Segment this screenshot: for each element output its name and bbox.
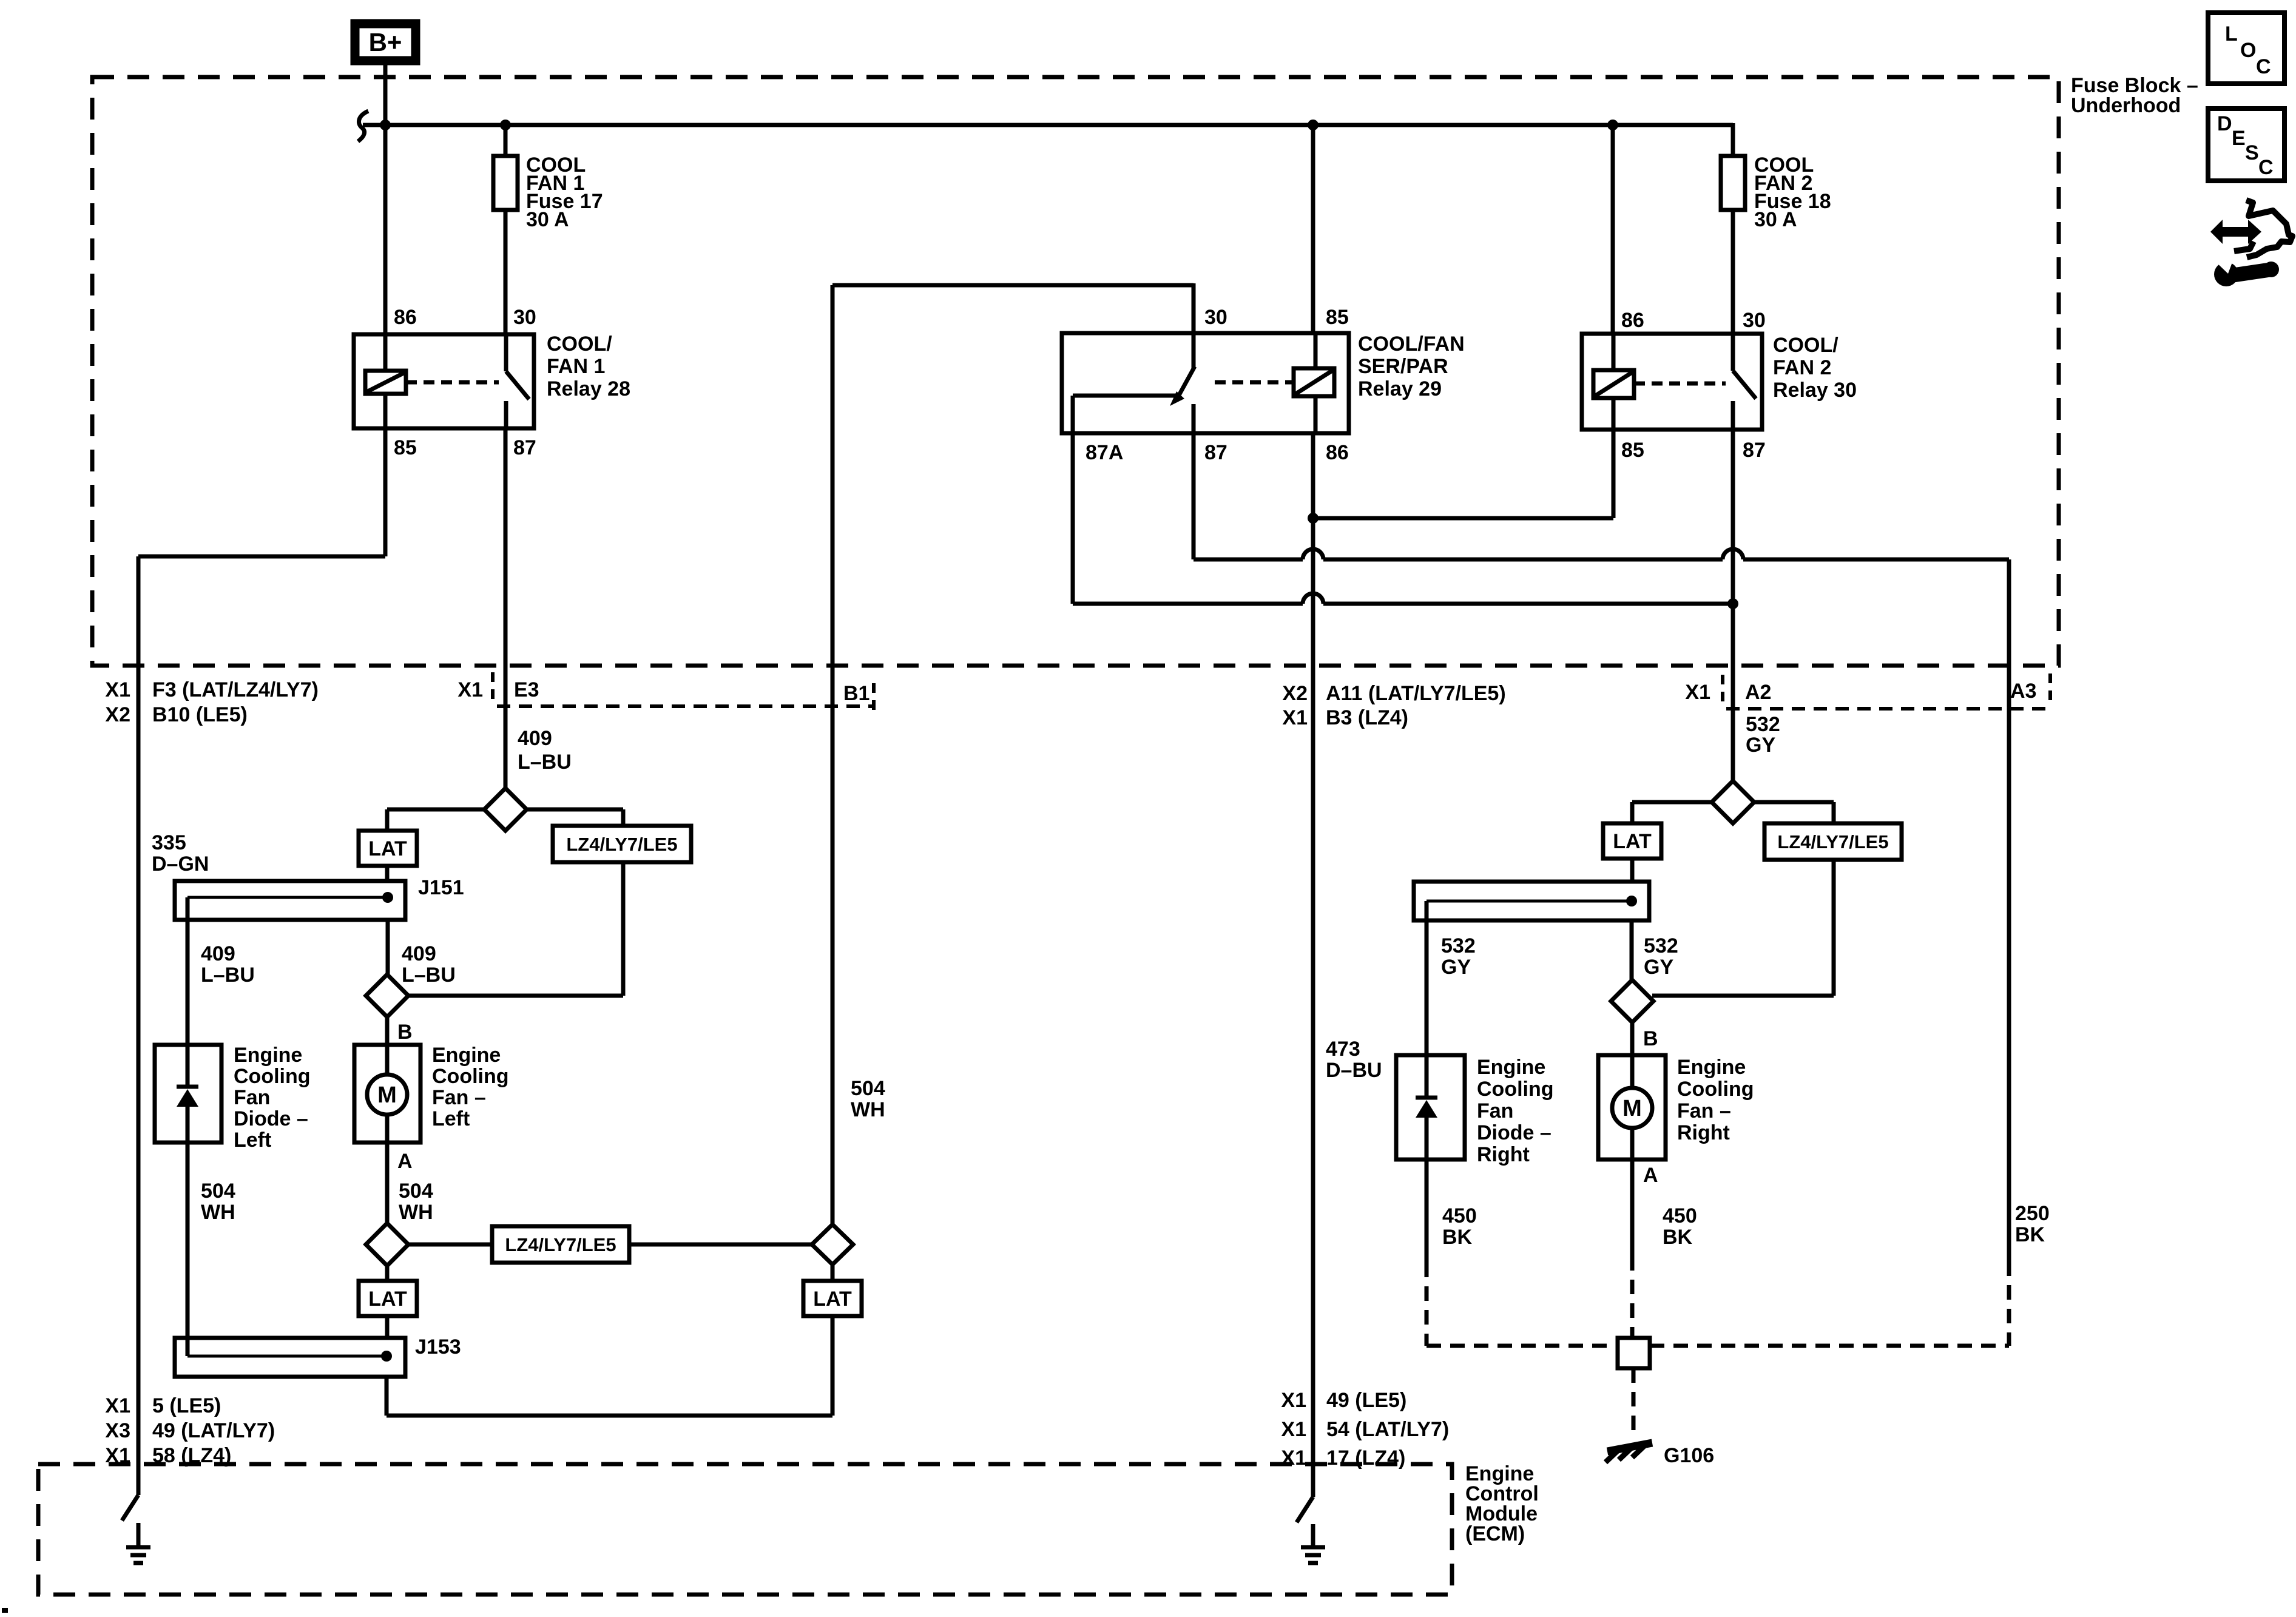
svg-text:COOL/: COOL/ [1773,334,1838,357]
label J151 [418,876,464,899]
artifact mark bottom-left [2,1608,8,1613]
svg-text:Engine: Engine [1477,1056,1545,1079]
label wire 532 GY (A2) [1746,713,1780,757]
svg-text:86: 86 [1621,309,1644,332]
relay K28 terminal 85 label [394,436,417,459]
svg-text:B: B [1643,1027,1658,1050]
svg-text:LAT: LAT [1613,830,1652,853]
label wire 504 WH (diode left) [201,1180,235,1224]
wire D6 to motor right [1630,1021,1635,1055]
ECM pin labels X1 49 / X1 54 / X1 17 [1281,1389,1449,1470]
wire motor right A to ground (450 BK) [1630,1160,1635,1338]
wire relay29-86 junction to relay30-85 [1308,430,1613,524]
svg-text:LZ4/LY7/LE5: LZ4/LY7/LE5 [1777,831,1888,852]
svg-text:409: 409 [402,942,436,965]
label wire 450 BK (diode right) [1442,1204,1477,1249]
svg-text:30: 30 [1743,309,1766,332]
connector pin X1 F3 / X2 B10 labels [105,678,319,726]
svg-text:87: 87 [513,436,536,459]
wire diode right to ground (450 BK) [1427,1160,1618,1346]
splice pack J153 [175,1338,405,1377]
svg-text:LZ4/LY7/LE5: LZ4/LY7/LE5 [505,1234,616,1255]
splice diamond D4 [812,1224,853,1264]
svg-text:87A: 87A [1086,441,1123,464]
wire B+ vertical feed [383,65,388,334]
relay K30 terminal 87 label [1743,439,1766,462]
svg-text:Cooling: Cooling [1677,1078,1754,1101]
svg-text:532: 532 [1644,934,1678,957]
svg-text:Engine: Engine [1677,1056,1746,1079]
wire LZ4 right down and across to D6 [1652,860,1834,996]
engine option box LAT (right upper) [1603,823,1661,859]
svg-text:49 (LE5): 49 (LE5) [1326,1389,1406,1412]
wire 250 BK dashed to ground [1650,1261,2009,1346]
svg-text:B+: B+ [369,28,402,56]
svg-text:504: 504 [201,1180,235,1203]
svg-text:LAT: LAT [813,1288,852,1311]
svg-text:C: C [2256,55,2271,78]
svg-text:D–GN: D–GN [152,852,209,876]
ECM switch to ground (right) [1297,1497,1325,1563]
svg-text:30: 30 [1204,306,1227,329]
connector pin E3 label [458,672,539,701]
svg-text:85: 85 [1621,439,1644,462]
svg-text:GY: GY [1746,734,1775,757]
svg-text:Cooling: Cooling [1477,1078,1554,1101]
relay K28 outline [354,334,534,428]
svg-text:FAN 1: FAN 1 [547,355,605,378]
connector dashed row left [497,704,875,708]
engine option box LAT (riser) [803,1281,862,1316]
splice diamond D3 [366,1223,408,1266]
svg-text:Left: Left [234,1129,271,1152]
label Engine Cooling Fan - Left [432,1044,509,1130]
svg-text:473: 473 [1326,1038,1360,1061]
svg-text:Cooling: Cooling [234,1065,311,1088]
relay K28 terminal 30 label [513,306,536,329]
wire right bar to D6 (532 GY) [1630,920,1634,981]
svg-text:Diode –: Diode – [234,1107,308,1130]
svg-text:BK: BK [2015,1223,2045,1246]
svg-text:BK: BK [1442,1226,1473,1249]
svg-text:409: 409 [201,942,235,965]
wire fuse17 to relay28-30 [504,210,508,334]
label COOL/FAN 1 Relay 28 [547,333,630,400]
svg-text:86: 86 [1326,441,1349,464]
svg-text:LAT: LAT [368,837,407,860]
wire D1 to LZ4 box (right branch) [525,809,623,826]
svg-text:D–BU: D–BU [1326,1059,1382,1082]
diode engine cooling fan diode - right [1396,1055,1465,1160]
wire J151 to D2 (409 L-BU) [386,920,390,977]
wire fuse18 to relay30-30 [1731,210,1735,334]
junction dot relay29-85 branch [1308,120,1319,130]
svg-text:X1: X1 [1685,681,1710,704]
engine option box LAT (left upper) [359,831,417,866]
svg-text:L–BU: L–BU [402,964,456,987]
svg-text:A11 (LAT/LY7/LE5): A11 (LAT/LY7/LE5) [1326,682,1506,705]
svg-text:Relay 28: Relay 28 [547,377,630,400]
relay K29 terminal 87A label [1086,441,1123,464]
LOC reference box [2208,13,2284,84]
svg-text:Underhood: Underhood [2071,94,2181,117]
relay K30 coil-switch dashed link [1634,382,1726,386]
ECM pin labels X1 5 / X3 49 / X1 58 [105,1394,275,1467]
svg-text:Diode –: Diode – [1477,1121,1551,1144]
wire LAT riser to D4 [831,1264,835,1281]
svg-text:Fan –: Fan – [432,1086,486,1109]
svg-text:Fan: Fan [234,1086,270,1109]
svg-text:49 (LAT/LY7): 49 (LAT/LY7) [152,1419,275,1442]
relay K29 switch blade [1170,366,1195,406]
wire LAT lower box to J153 [385,1316,390,1340]
relay K28 coil-switch dashed link [406,380,499,385]
fuse block - underhood (dashed outline) [92,77,2059,666]
wire relay29-86 to ECM (473 D-BU) [1311,518,1315,1497]
label Engine Cooling Fan Diode - Left [234,1044,311,1152]
wire 504WH riser B1 to relay29-30 [832,283,1194,334]
label motor terminal A (right) [1643,1164,1658,1187]
relay K30 terminal 86 label [1621,309,1644,332]
label wire 532 GY (diode right) [1441,934,1476,979]
svg-text:Cooling: Cooling [432,1065,509,1088]
relay K29 outline [1062,333,1349,433]
splice diamond D1 [484,788,527,831]
svg-text:30 A: 30 A [1754,208,1797,231]
wire 504 WH riser (B1) [831,285,835,1224]
svg-text:L: L [2225,22,2238,46]
DESC reference box [2208,109,2284,181]
wire bus corner to fuse18 [1731,123,1735,158]
relay K29 terminal 86 label [1326,441,1349,464]
wire relay29-87 to A3 (250 BK) [1194,433,2009,1261]
label COOL FAN 1 Fuse 17 30 A [526,154,603,231]
relay K29 switch common 30 [1192,333,1196,369]
svg-text:Left: Left [432,1107,470,1130]
svg-text:COOL/: COOL/ [547,333,612,356]
svg-text:F3 (LAT/LZ4/LY7): F3 (LAT/LZ4/LY7) [152,678,319,701]
svg-text:FAN 2: FAN 2 [1773,356,1831,379]
engine control module (dashed outline) [38,1464,1452,1595]
relay K29 terminal 87 label [1204,441,1227,464]
svg-text:M: M [377,1082,397,1108]
motor engine cooling fan - right [1598,1055,1666,1160]
wire J151 to diode left (409 L-BU) [186,897,190,1045]
svg-text:G106: G106 [1664,1444,1714,1467]
splice diamond D5 [1712,781,1754,823]
junction dot B+ [380,120,391,130]
label G106 [1664,1444,1714,1467]
wire LZ4 box down and across to D2 [407,862,623,996]
svg-text:L–BU: L–BU [201,964,255,987]
svg-text:30 A: 30 A [526,208,569,231]
wire D5 to LAT box (right) [1632,802,1713,823]
svg-text:54 (LAT/LY7): 54 (LAT/LY7) [1326,1418,1449,1441]
svg-text:409: 409 [518,727,552,750]
svg-text:Fan: Fan [1477,1099,1513,1122]
label wire 450 BK (motor right) [1663,1204,1697,1249]
svg-text:X1: X1 [458,678,483,701]
svg-text:Relay 29: Relay 29 [1358,377,1442,400]
wire B+ bus [363,123,1733,127]
wire LAT to splice J151 [385,866,390,883]
ground G106 symbol [1606,1443,1652,1462]
wire D3 to LAT lower box [385,1264,390,1281]
svg-text:85: 85 [394,436,417,459]
wire D1 to LAT connector (left branch) [387,809,485,831]
connector pin X2 A11 / X1 B3 labels [1282,682,1505,729]
relay K30 terminal 85 label [1621,439,1644,462]
diode engine cooling fan diode - left [155,1045,221,1143]
wire relay30-87 to D5 (532 GY) [1731,430,1735,784]
svg-text:B1: B1 [843,682,869,705]
wire D5 to LZ4 box (right branch) [1753,802,1834,823]
svg-text:E: E [2232,127,2246,150]
label Engine Cooling Fan - Right [1677,1056,1754,1144]
connector dashed row right [1726,707,2049,711]
svg-text:LAT: LAT [368,1288,407,1311]
svg-text:5 (LE5): 5 (LE5) [152,1394,221,1417]
svg-text:A2: A2 [1745,681,1771,704]
svg-text:C: C [2258,156,2274,179]
relay K28 coil [365,334,406,428]
label Engine Cooling Fan Diode - Right [1477,1056,1554,1166]
relay K29 coil-switch dashed link [1215,380,1294,385]
svg-text:Right: Right [1677,1121,1730,1144]
relay K30 coil [1593,334,1634,430]
label wire 504 WH (motor left) [399,1180,433,1224]
splice curl at bus start [358,111,368,141]
label wire 250 BK [2015,1202,2050,1246]
svg-text:J151: J151 [418,876,464,899]
relay K29 87A contact [1073,396,1177,433]
label J153 [415,1335,461,1359]
relay K29 terminal 85 label [1326,306,1349,329]
fuse F17 element [493,156,518,210]
svg-text:335: 335 [152,831,186,854]
ECM switch to ground (left) [122,1495,150,1563]
svg-text:30: 30 [513,306,536,329]
svg-text:87: 87 [1204,441,1227,464]
svg-text:GY: GY [1644,956,1673,979]
label COOL FAN 2 Fuse 18 30 A [1754,154,1831,231]
svg-text:X3: X3 [105,1419,130,1442]
svg-text:504: 504 [851,1077,885,1100]
power terminal B+ [355,24,416,61]
wire square to G106 [1632,1368,1636,1435]
wire D3 to LZ4 box (lower) [407,1243,492,1247]
svg-text:L–BU: L–BU [518,751,572,774]
splice pack J151 [175,881,405,920]
motor engine cooling fan - left [354,1045,420,1143]
relay K28 terminal 86 label [394,306,417,329]
relay K29 87 contact [1192,404,1196,433]
engine option box LZ4/LY7/LE5 (left upper) [553,826,691,862]
svg-text:B: B [397,1021,413,1044]
svg-text:A: A [397,1150,413,1173]
svg-text:17 (LZ4): 17 (LZ4) [1326,1447,1405,1470]
svg-text:A: A [1643,1164,1658,1187]
engine option box LZ4/LY7/LE5 (left lower) [492,1226,629,1263]
svg-text:E3: E3 [514,678,539,701]
svg-text:532: 532 [1441,934,1476,957]
svg-text:Right: Right [1477,1143,1530,1166]
svg-text:250: 250 [2015,1202,2050,1225]
label wire 409 L-BU (motor B) [402,942,456,987]
svg-text:X2: X2 [1282,682,1308,705]
splice diamond D2 [366,974,408,1017]
svg-text:X1: X1 [105,678,130,701]
connector pin A2 label [1685,675,1771,704]
svg-text:85: 85 [1326,306,1349,329]
connector pin A3 label [2010,673,2050,703]
engine option box LAT (left lower) [359,1281,417,1316]
label wire 409 L-BU (E3) [518,727,572,774]
svg-text:M: M [1622,1096,1642,1121]
label motor terminal B (left) [397,1021,413,1044]
svg-text:86: 86 [394,306,417,329]
svg-text:A3: A3 [2010,680,2036,703]
wire diode left to J153 (504 WH) [186,1143,190,1356]
svg-text:Engine: Engine [432,1044,501,1067]
label wire 473 D-BU [1326,1038,1382,1082]
wire relay29-87A to relay30-87 junction [1073,433,1738,609]
svg-text:BK: BK [1663,1226,1693,1249]
service manual icon (hand with arrow and wrench) [2210,200,2292,286]
label motor terminal B (right) [1643,1027,1658,1050]
label COOL/FAN SER/PAR Relay 29 [1358,333,1465,400]
svg-text:O: O [2240,39,2256,62]
junction dot relay30-86 branch [1607,120,1618,130]
svg-text:B3 (LZ4): B3 (LZ4) [1326,706,1408,729]
wire J153 to LAT riser [387,1316,832,1416]
svg-text:Engine: Engine [234,1044,302,1067]
splice diamond D6 [1611,980,1653,1022]
svg-text:WH: WH [399,1201,433,1224]
relay K29 terminal 30 label [1204,306,1227,329]
relay K29 coil [1294,333,1334,433]
label Fuse Block - Underhood [2071,74,2198,117]
svg-text:87: 87 [1743,439,1766,462]
wire right bar to diode right (532 GY) [1425,901,1429,1055]
label COOL/FAN 2 Relay 30 [1773,334,1857,402]
label wire 335 D-GN [152,831,209,876]
svg-text:X1: X1 [1281,1418,1306,1441]
svg-text:504: 504 [399,1180,433,1203]
relay K28 terminal 87 label [513,436,536,459]
relay K30 outline [1582,334,1762,430]
svg-text:S: S [2245,141,2259,164]
wire fuse17 top lead [504,125,508,158]
wire D2 to motor left [385,1016,390,1045]
svg-text:450: 450 [1663,1204,1697,1227]
label motor terminal A (left) [397,1150,413,1173]
wire LAT to right splice bar [1630,859,1635,883]
relay K28 switch [506,334,529,428]
svg-text:Relay 30: Relay 30 [1773,379,1857,402]
label wire 409 L-BU (diode left) [201,942,255,987]
wire relay28-87 to splice diamond (409 L-BU) [504,428,508,791]
svg-text:Fan –: Fan – [1677,1099,1731,1122]
svg-text:LZ4/LY7/LE5: LZ4/LY7/LE5 [566,834,677,855]
splice pack (right) [1414,882,1649,920]
svg-text:WH: WH [201,1201,235,1224]
junction dot fuse17 branch [500,120,511,130]
svg-text:D: D [2217,112,2232,135]
svg-text:COOL/FAN: COOL/FAN [1358,333,1465,356]
relay K30 switch [1733,334,1756,430]
fuse F18 element [1721,156,1745,210]
wire relay30-86 from bus [1611,125,1615,334]
wire motor left A to D3 (504 WH) [385,1143,390,1226]
svg-text:X1: X1 [1281,1389,1306,1412]
svg-text:532: 532 [1746,713,1780,736]
svg-text:X2: X2 [105,703,130,726]
wire relay28-85 to ECM (335 D-GN) [138,428,385,1495]
svg-text:B10 (LE5): B10 (LE5) [152,703,248,726]
svg-text:GY: GY [1441,956,1471,979]
svg-text:450: 450 [1442,1204,1477,1227]
label wire 532 GY (motor right) [1644,934,1678,979]
relay K30 terminal 30 label [1743,309,1766,332]
svg-text:J153: J153 [415,1335,461,1359]
svg-text:WH: WH [851,1098,885,1121]
svg-text:X1: X1 [1282,706,1308,729]
svg-text:SER/PAR: SER/PAR [1358,355,1448,378]
wire LZ4 lower box to D4 [629,1243,812,1247]
wire relay29-85 from bus [1311,125,1315,333]
svg-text:X1: X1 [105,1394,130,1417]
label Engine Control Module (ECM) [1465,1462,1539,1545]
connector pin B1 label [843,682,874,710]
label wire 504 WH (B1) [851,1077,885,1121]
ground connector square [1618,1338,1650,1368]
engine option box LZ4/LY7/LE5 (right) [1764,823,1902,860]
svg-text:X1: X1 [1281,1447,1306,1470]
svg-text:(ECM): (ECM) [1465,1522,1525,1545]
